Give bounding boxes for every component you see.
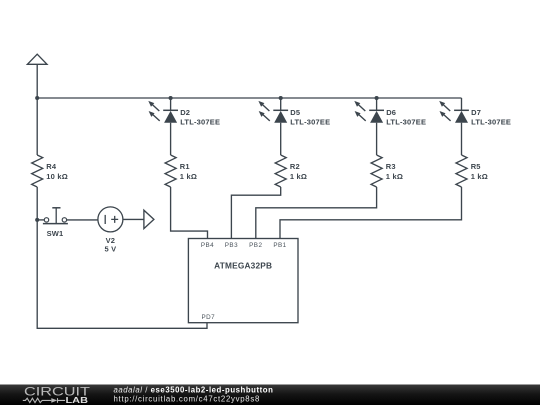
output flag triangle: [144, 210, 154, 228]
wire top bus: [37, 97, 461, 99]
wire R3 to pin PB2: [256, 187, 377, 239]
svg-text:LTL-307EE: LTL-307EE: [290, 117, 330, 126]
IC body outline: [188, 239, 298, 323]
svg-text:http://circuitlab.com/c47ct22y: http://circuitlab.com/c47ct22yvp8s8: [114, 394, 261, 403]
LED D2 LTL-307EE: [148, 98, 220, 155]
resistor R1 1 kOhm: [165, 155, 197, 187]
node junction D6/bus: [375, 96, 379, 100]
resistor R3 1 kOhm: [371, 155, 403, 187]
wire R1 to pin PB4: [171, 187, 208, 239]
svg-text:1 kΩ: 1 kΩ: [290, 172, 307, 181]
svg-text:SW1: SW1: [47, 229, 64, 238]
svg-text:D7: D7: [471, 108, 481, 117]
wire left rail lower (R4 to bottom): [37, 187, 207, 328]
svg-text:1 kΩ: 1 kΩ: [471, 172, 488, 181]
svg-text:D2: D2: [180, 108, 190, 117]
wire R5 to pin PB1: [280, 187, 462, 239]
svg-text:5 V: 5 V: [104, 245, 116, 254]
wire V2 to flag: [123, 218, 144, 220]
node junction D2/bus: [169, 96, 173, 100]
LED D5 LTL-307EE: [258, 98, 330, 155]
svg-text:aadalal / ese3500-lab2-led-pus: aadalal / ese3500-lab2-led-pushbutton: [114, 385, 274, 394]
wire left rail upper (bus to R4): [36, 98, 38, 155]
svg-text:D5: D5: [290, 108, 300, 117]
CircuitLab logo wordmark: [23, 385, 91, 405]
VCC supply triangle: [27, 54, 47, 64]
svg-text:PD7: PD7: [202, 314, 216, 321]
svg-text:LTL-307EE: LTL-307EE: [386, 117, 426, 126]
LED D7 LTL-307EE: [439, 98, 511, 155]
wire VCC stem: [36, 64, 38, 98]
wire rail to SW1: [37, 219, 44, 221]
voltage source V2 5 V: [98, 207, 123, 254]
svg-text:PB4: PB4: [201, 242, 214, 249]
node junction VCC/bus: [35, 96, 39, 100]
svg-text:PB3: PB3: [225, 242, 238, 249]
svg-text:R2: R2: [290, 162, 300, 171]
svg-text:LTL-307EE: LTL-307EE: [471, 117, 511, 126]
svg-text:R5: R5: [471, 162, 481, 171]
resistor R2 1 kOhm: [275, 155, 307, 187]
svg-text:1 kΩ: 1 kΩ: [180, 172, 197, 181]
svg-text:PB1: PB1: [273, 242, 286, 249]
svg-text:R1: R1: [180, 162, 190, 171]
svg-text:PB2: PB2: [249, 242, 262, 249]
pushbutton switch SW1: [43, 208, 68, 238]
footer bar: [0, 385, 540, 405]
svg-text:LAB: LAB: [66, 396, 89, 405]
wire SW1 to V2: [67, 219, 98, 221]
resistor R5 1 kOhm: [456, 155, 488, 187]
resistor R4 10 kOhm: [32, 155, 68, 187]
svg-text:R4: R4: [46, 162, 57, 171]
svg-text:D6: D6: [386, 108, 396, 117]
IC U1 ATMEGA32PB: [188, 239, 298, 323]
wire R2 to pin PB3: [231, 187, 280, 239]
svg-text:ATMEGA32PB: ATMEGA32PB: [214, 261, 272, 271]
node junction D5/bus: [279, 96, 283, 100]
svg-text:LTL-307EE: LTL-307EE: [180, 117, 220, 126]
svg-text:10 kΩ: 10 kΩ: [46, 172, 68, 181]
svg-text:1 kΩ: 1 kΩ: [386, 172, 403, 181]
node junction SW1/rail: [35, 218, 39, 222]
footer title text: [114, 385, 274, 403]
LED D6 LTL-307EE: [354, 98, 426, 155]
svg-text:R3: R3: [386, 162, 396, 171]
